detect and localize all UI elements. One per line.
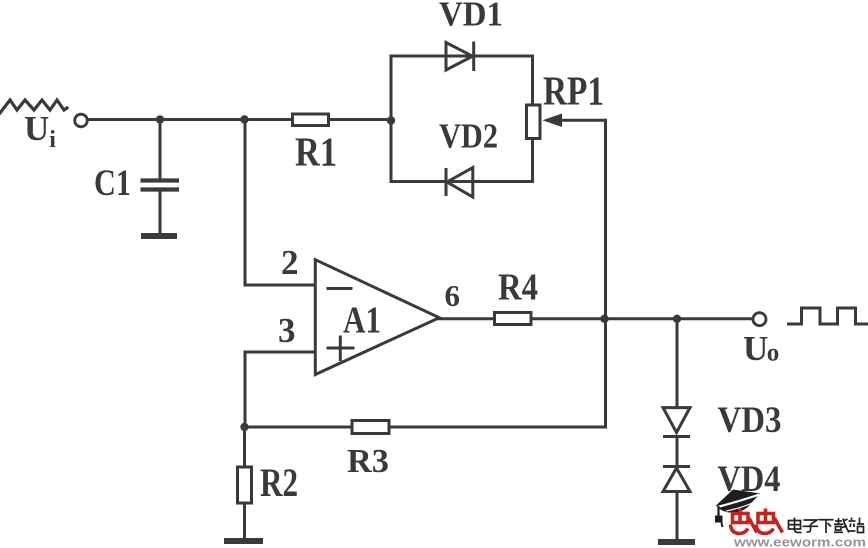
svg-text:R2: R2	[260, 460, 298, 505]
svg-text:VD3: VD3	[718, 400, 782, 441]
svg-text:RP1: RP1	[543, 68, 604, 114]
svg-text:VD2: VD2	[439, 117, 498, 156]
svg-text:www.eeworm.com: www.eeworm.com	[733, 536, 866, 548]
svg-text:3: 3	[278, 311, 296, 350]
svg-text:R4: R4	[498, 267, 538, 309]
svg-text:A1: A1	[343, 300, 381, 342]
svg-text:VD1: VD1	[439, 0, 503, 34]
svg-text:R1: R1	[295, 129, 337, 175]
svg-text:R3: R3	[347, 443, 389, 480]
svg-text:2: 2	[281, 243, 299, 282]
svg-text:6: 6	[445, 278, 461, 313]
svg-text:C1: C1	[94, 162, 131, 203]
